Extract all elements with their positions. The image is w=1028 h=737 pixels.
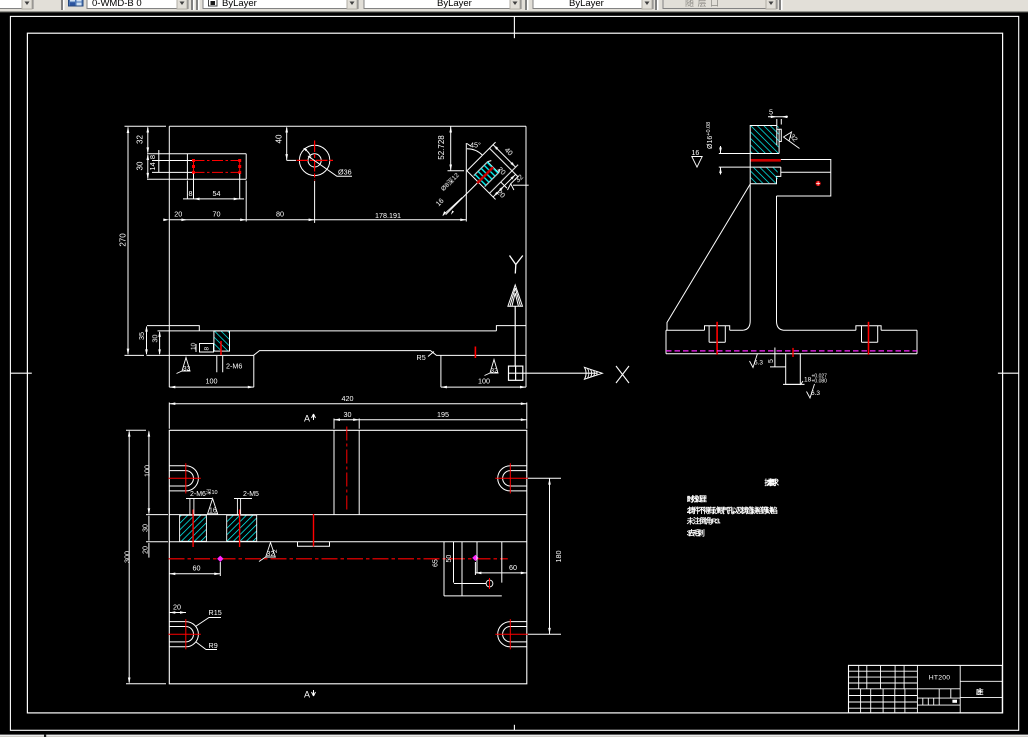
view3 surface 6.3 left of tab: [750, 354, 758, 368]
svg-text:5: 5: [768, 359, 775, 363]
view3 tab red tick: [792, 348, 794, 357]
view3 base outline: [666, 330, 917, 354]
title block lower-left grid rows: [849, 696, 918, 709]
view3 bottom tab: [786, 354, 801, 385]
dim 30 (notch height): [147, 155, 149, 178]
svg-text:60: 60: [193, 564, 201, 573]
centering mark bottom: [513, 725, 515, 731]
view1 2-M6 leader: [217, 356, 223, 372]
title block lower-left grid cols: [861, 689, 905, 713]
svg-text:30: 30: [141, 524, 150, 532]
view1 left foot: [169, 355, 254, 387]
title block mid divisions: [917, 665, 960, 713]
svg-text:6.3: 6.3: [754, 360, 763, 367]
view2 slot right-top: [495, 463, 528, 493]
view2 R9 leader: [196, 642, 217, 650]
rotated boss feature: [434, 137, 532, 235]
rotated square outline: [467, 148, 512, 193]
svg-text:随层口: 随层口: [685, 0, 719, 8]
svg-text:54: 54: [213, 189, 221, 198]
title block outer: [849, 665, 1003, 713]
view2 outline: [169, 430, 527, 684]
svg-text:A: A: [304, 690, 310, 700]
view1 right foot: [441, 355, 526, 387]
view1 left edge: [168, 126, 170, 387]
toolbar separators: [655, 0, 659, 10]
svg-text:270: 270: [119, 233, 128, 247]
view2 slot right-bottom: [495, 619, 528, 649]
rotated inner slot: [474, 159, 501, 186]
centering mark right: [998, 372, 1019, 374]
view2 triangle symbol 16: [208, 499, 218, 514]
svg-text:ByLayer: ByLayer: [437, 0, 472, 9]
svg-text:20: 20: [141, 546, 150, 554]
rotated axis centerline through corner: [446, 167, 493, 214]
view3 upper hatch block: [750, 126, 781, 154]
svg-text:2-M5: 2-M5: [243, 491, 259, 498]
svg-text:30: 30: [150, 335, 159, 343]
view2 grip diamond left: [217, 556, 223, 562]
view3 left slot section: [705, 326, 730, 343]
view3 dim O16: [720, 146, 722, 175]
view1 slot extension lines (8/14 dims): [152, 161, 194, 173]
svg-text:32: 32: [183, 366, 191, 373]
toolbar layer combobox: [87, 0, 188, 9]
toolbar lineweight combobox: [533, 0, 653, 9]
view1 R5 label: [428, 352, 434, 357]
view2 R15 leader: [196, 618, 222, 627]
left 45deg leaders with labels: [443, 198, 462, 216]
toolbar background: [0, 0, 1028, 12]
view2 small hole circle: [486, 580, 493, 587]
svg-text:50: 50: [446, 555, 453, 563]
svg-text:100: 100: [478, 376, 490, 385]
toolbar separators: [191, 0, 200, 10]
view1 left foot dim 100: [169, 386, 175, 389]
svg-text:ByLayer: ByLayer: [222, 0, 257, 9]
svg-text:178.191: 178.191: [375, 211, 401, 220]
svg-text:300: 300: [123, 551, 132, 563]
title block mark: [952, 700, 957, 703]
toolbar layer icon: [69, 0, 84, 6]
svg-text:3.去毛刺: 3.去毛刺: [687, 529, 705, 538]
UCS Y axis shaft: [514, 306, 516, 366]
view2 dim 20 above bottom slot: [169, 612, 186, 614]
toolbar separator: [61, 0, 65, 10]
dim 8 (slot top offset): [158, 150, 160, 161]
bottom status-bar sliver: [0, 735, 1028, 737]
view3 dim 5 top: [768, 117, 788, 145]
view1 plate bottom + recess: [147, 351, 527, 356]
title block small cells: [923, 698, 939, 705]
rotated dim line 40: [493, 145, 516, 168]
svg-text:14: 14: [148, 162, 157, 170]
view2 small pad under band: [298, 542, 330, 547]
dim 54 / 8 line: [183, 174, 244, 200]
view1 outline top edge: [169, 125, 526, 127]
inner circle: [308, 154, 321, 167]
svg-text:5: 5: [769, 108, 773, 117]
view3 tab dim 5: [770, 348, 786, 368]
rotated red centerline: [477, 167, 493, 183]
svg-text:60: 60: [509, 563, 517, 572]
UCS Y letter: [510, 256, 523, 274]
UCS origin box: [509, 366, 523, 380]
svg-text:8: 8: [189, 189, 193, 198]
view2 dim 420 top: [169, 403, 527, 429]
view2 leader 2-M6 deep10: [186, 499, 212, 515]
view2 hatch rect left: [180, 515, 207, 541]
view2 dim 60 right: [475, 562, 526, 575]
svg-text:16: 16: [209, 508, 217, 515]
centering mark top: [513, 16, 515, 38]
view1 right edge: [525, 126, 527, 387]
bottom dim line 20/70/80/178.191: [169, 143, 466, 222]
O36 leader: [308, 156, 352, 176]
title block upper-left grid rows: [849, 671, 961, 689]
svg-text:2-M6: 2-M6: [226, 362, 242, 371]
svg-text:30: 30: [344, 410, 352, 419]
svg-text:52.728: 52.728: [437, 135, 446, 160]
view3 right slot section: [856, 326, 881, 343]
view2 band top line: [169, 514, 527, 516]
toolbar plotstyle combobox (disabled): [663, 0, 777, 9]
UCS Y arrowhead: [508, 285, 523, 306]
svg-text:ByLayer: ByLayer: [569, 0, 604, 9]
toolbar linetype combobox: [364, 0, 521, 9]
view2 right pocket steps: [444, 542, 502, 596]
view3 column edges: [743, 184, 783, 330]
svg-text:10: 10: [190, 342, 197, 350]
view2 dim 30/195 second line: [334, 419, 527, 429]
view2 leader 2-M5: [234, 499, 252, 515]
red slot centerline rect (selected): [194, 161, 240, 173]
svg-text:420: 420: [342, 394, 354, 403]
red slot grip points: [192, 159, 241, 174]
svg-text:底座: 底座: [976, 687, 984, 696]
svg-text:35: 35: [137, 332, 146, 340]
toolbar separator: [525, 0, 529, 10]
boss circle O36: [299, 145, 329, 175]
svg-text:16: 16: [692, 150, 700, 157]
dim 32 (notch): [147, 128, 149, 153]
view1 foot hatch block: [214, 331, 230, 351]
view1 right foot dim 100: [441, 386, 447, 389]
view2 dim 30 left: [146, 515, 168, 542]
view2 mid red centerline short: [313, 514, 315, 547]
svg-text:32: 32: [136, 135, 145, 144]
view1 right red tick: [474, 347, 476, 359]
svg-text:80: 80: [276, 210, 284, 219]
svg-text:6.3: 6.3: [811, 390, 820, 397]
view1 small 10/8 dim box: [196, 344, 214, 353]
rotated dim ext lines: [467, 142, 524, 199]
view2 surface 32 below band: [259, 543, 275, 562]
svg-text:100: 100: [206, 376, 218, 385]
view1 left surface finish 32: [177, 358, 191, 374]
view2 hatch red centerlines: [193, 510, 240, 548]
view2 dim 20 left: [148, 543, 150, 558]
svg-text:2: 2: [272, 549, 279, 553]
svg-text:HT200: HT200: [929, 675, 950, 682]
svg-text:65: 65: [433, 559, 440, 567]
svg-text:45°: 45°: [470, 141, 481, 150]
view3 slot red centerlines: [717, 322, 868, 355]
svg-text:2.铸件不得有砂眼,气孔,以及铸造缺陷等缺陷: 2.铸件不得有砂眼,气孔,以及铸造缺陷等缺陷: [687, 506, 778, 515]
view1 dim 30 left: [159, 332, 161, 354]
view3 lower hatch block: [750, 154, 781, 184]
svg-text:20: 20: [173, 603, 181, 612]
centering mark left: [10, 372, 31, 374]
rotated hatch lines cyan: [475, 162, 498, 185]
svg-text:100: 100: [143, 465, 152, 477]
svg-text:未注倒角R3.: 未注倒角R3.: [686, 517, 721, 526]
circle bottom extension to dim line: [314, 181, 316, 223]
svg-text:30: 30: [136, 161, 145, 170]
svg-text:8: 8: [148, 155, 157, 159]
UCS X axis shaft: [523, 372, 597, 374]
toolbar combo: leftmost (cut): [0, 0, 33, 9]
title block upper-left grid cols: [859, 665, 918, 713]
svg-text:32: 32: [491, 368, 499, 375]
svg-text:+0.080: +0.080: [812, 379, 828, 385]
view3 surface 32 symbol top: [784, 132, 800, 149]
view2 top slot red centerline: [346, 427, 348, 513]
view2 dim 300: [126, 430, 166, 684]
view1 left boss top: [147, 326, 199, 331]
view1 right boss top: [496, 326, 526, 331]
svg-text:R5: R5: [417, 353, 426, 362]
view2 dim 100 left: [148, 432, 150, 514]
svg-text:1.时效处理: 1.时效处理: [687, 494, 708, 503]
view1 top notch lines: [147, 154, 246, 180]
svg-text:180: 180: [554, 551, 563, 563]
svg-text:R15: R15: [209, 608, 222, 617]
view2 band bottom line: [169, 541, 527, 543]
view3 magenta section line: [666, 350, 917, 352]
view2 long red centerline: [169, 558, 508, 560]
45 deg angular dim arc: [467, 144, 483, 156]
UCS X arrowhead: [585, 367, 603, 379]
view1 dim 35 left: [146, 327, 148, 354]
view3 surface 16 symbol: [692, 157, 702, 168]
view2 dim 180 right: [528, 478, 561, 634]
view2 slot left-top: [168, 463, 201, 493]
UCS X letter: [616, 366, 629, 383]
rotated dim line 20 20: [493, 174, 516, 197]
svg-text:8: 8: [204, 347, 211, 351]
view1 foot hatch red centerline: [220, 341, 222, 355]
dim 270 (left height): [125, 126, 167, 355]
view2 slot left-bottom: [168, 619, 201, 649]
svg-text:195: 195: [437, 410, 449, 419]
dim 14 (slot height): [158, 161, 160, 173]
view1 right surface finish 32: [485, 360, 499, 376]
toolbar separator right: [779, 0, 783, 10]
svg-text:70: 70: [213, 210, 221, 219]
svg-text:Ø36: Ø36: [338, 168, 352, 177]
view3 tab dim 18: [783, 381, 805, 385]
view3 right arm: [777, 160, 831, 197]
circle red centerlines: [297, 141, 334, 181]
view1 notch inner verticals: [186, 154, 188, 180]
view3 surface 6.3 below tab: [807, 384, 815, 398]
svg-text:R9: R9: [209, 641, 218, 650]
svg-text:18: 18: [804, 377, 812, 384]
view2 grip diamond right: [472, 555, 478, 561]
toolbar color combobox: [203, 0, 358, 9]
svg-text:0-WMD-B 0: 0-WMD-B 0: [92, 0, 142, 9]
svg-text:20: 20: [174, 210, 182, 219]
view3 arm red dot: [816, 181, 821, 186]
title block right col rows: [960, 681, 1002, 697]
view2 small hole red centerline: [489, 578, 491, 589]
dim 52.728: [448, 126, 465, 171]
view3 hole band lines: [719, 154, 781, 168]
view2 top slot verticals: [334, 430, 359, 514]
thread arc leader: [304, 148, 310, 155]
view3 gusset slant: [667, 184, 750, 330]
svg-text:技术要求: 技术要求: [764, 478, 779, 487]
dim 40 (circle y): [287, 128, 296, 161]
view2 dim 60 left: [169, 562, 220, 576]
view1 plate top surface: [158, 330, 497, 332]
svg-text:40: 40: [275, 134, 284, 143]
view2 hatch rect right: [227, 515, 257, 541]
view3 hole red centerline: [750, 159, 781, 162]
32 surface symbol on rotated feature: [508, 176, 529, 190]
svg-text:A: A: [304, 414, 310, 424]
